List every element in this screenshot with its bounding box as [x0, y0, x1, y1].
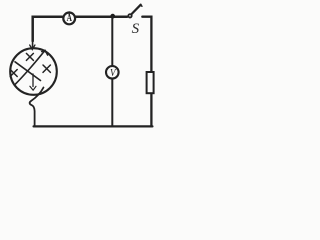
- junction node: [110, 14, 115, 19]
- wire (resistor to bottom-right corner): [150, 94, 152, 126]
- lamp top arrow: [30, 45, 35, 50]
- wire (voltmeter branch upper): [111, 17, 113, 65]
- resistor R1: [147, 72, 154, 93]
- voltmeter V1: [106, 66, 119, 79]
- wire (switch to top-right corner, down to resistor): [142, 17, 151, 72]
- ammeter A1: [63, 12, 75, 24]
- svg-text:S: S: [132, 21, 140, 37]
- wire (ammeter to switch): [76, 15, 127, 18]
- switch S: [128, 5, 142, 18]
- wire (top-left: lamp up to ammeter): [33, 17, 63, 41]
- lamp L1: [10, 48, 57, 95]
- wire (bottom): [34, 125, 153, 127]
- wire (lamp bottom hook to bottom-left corner): [30, 88, 44, 126]
- wire (voltmeter branch lower): [111, 79, 113, 126]
